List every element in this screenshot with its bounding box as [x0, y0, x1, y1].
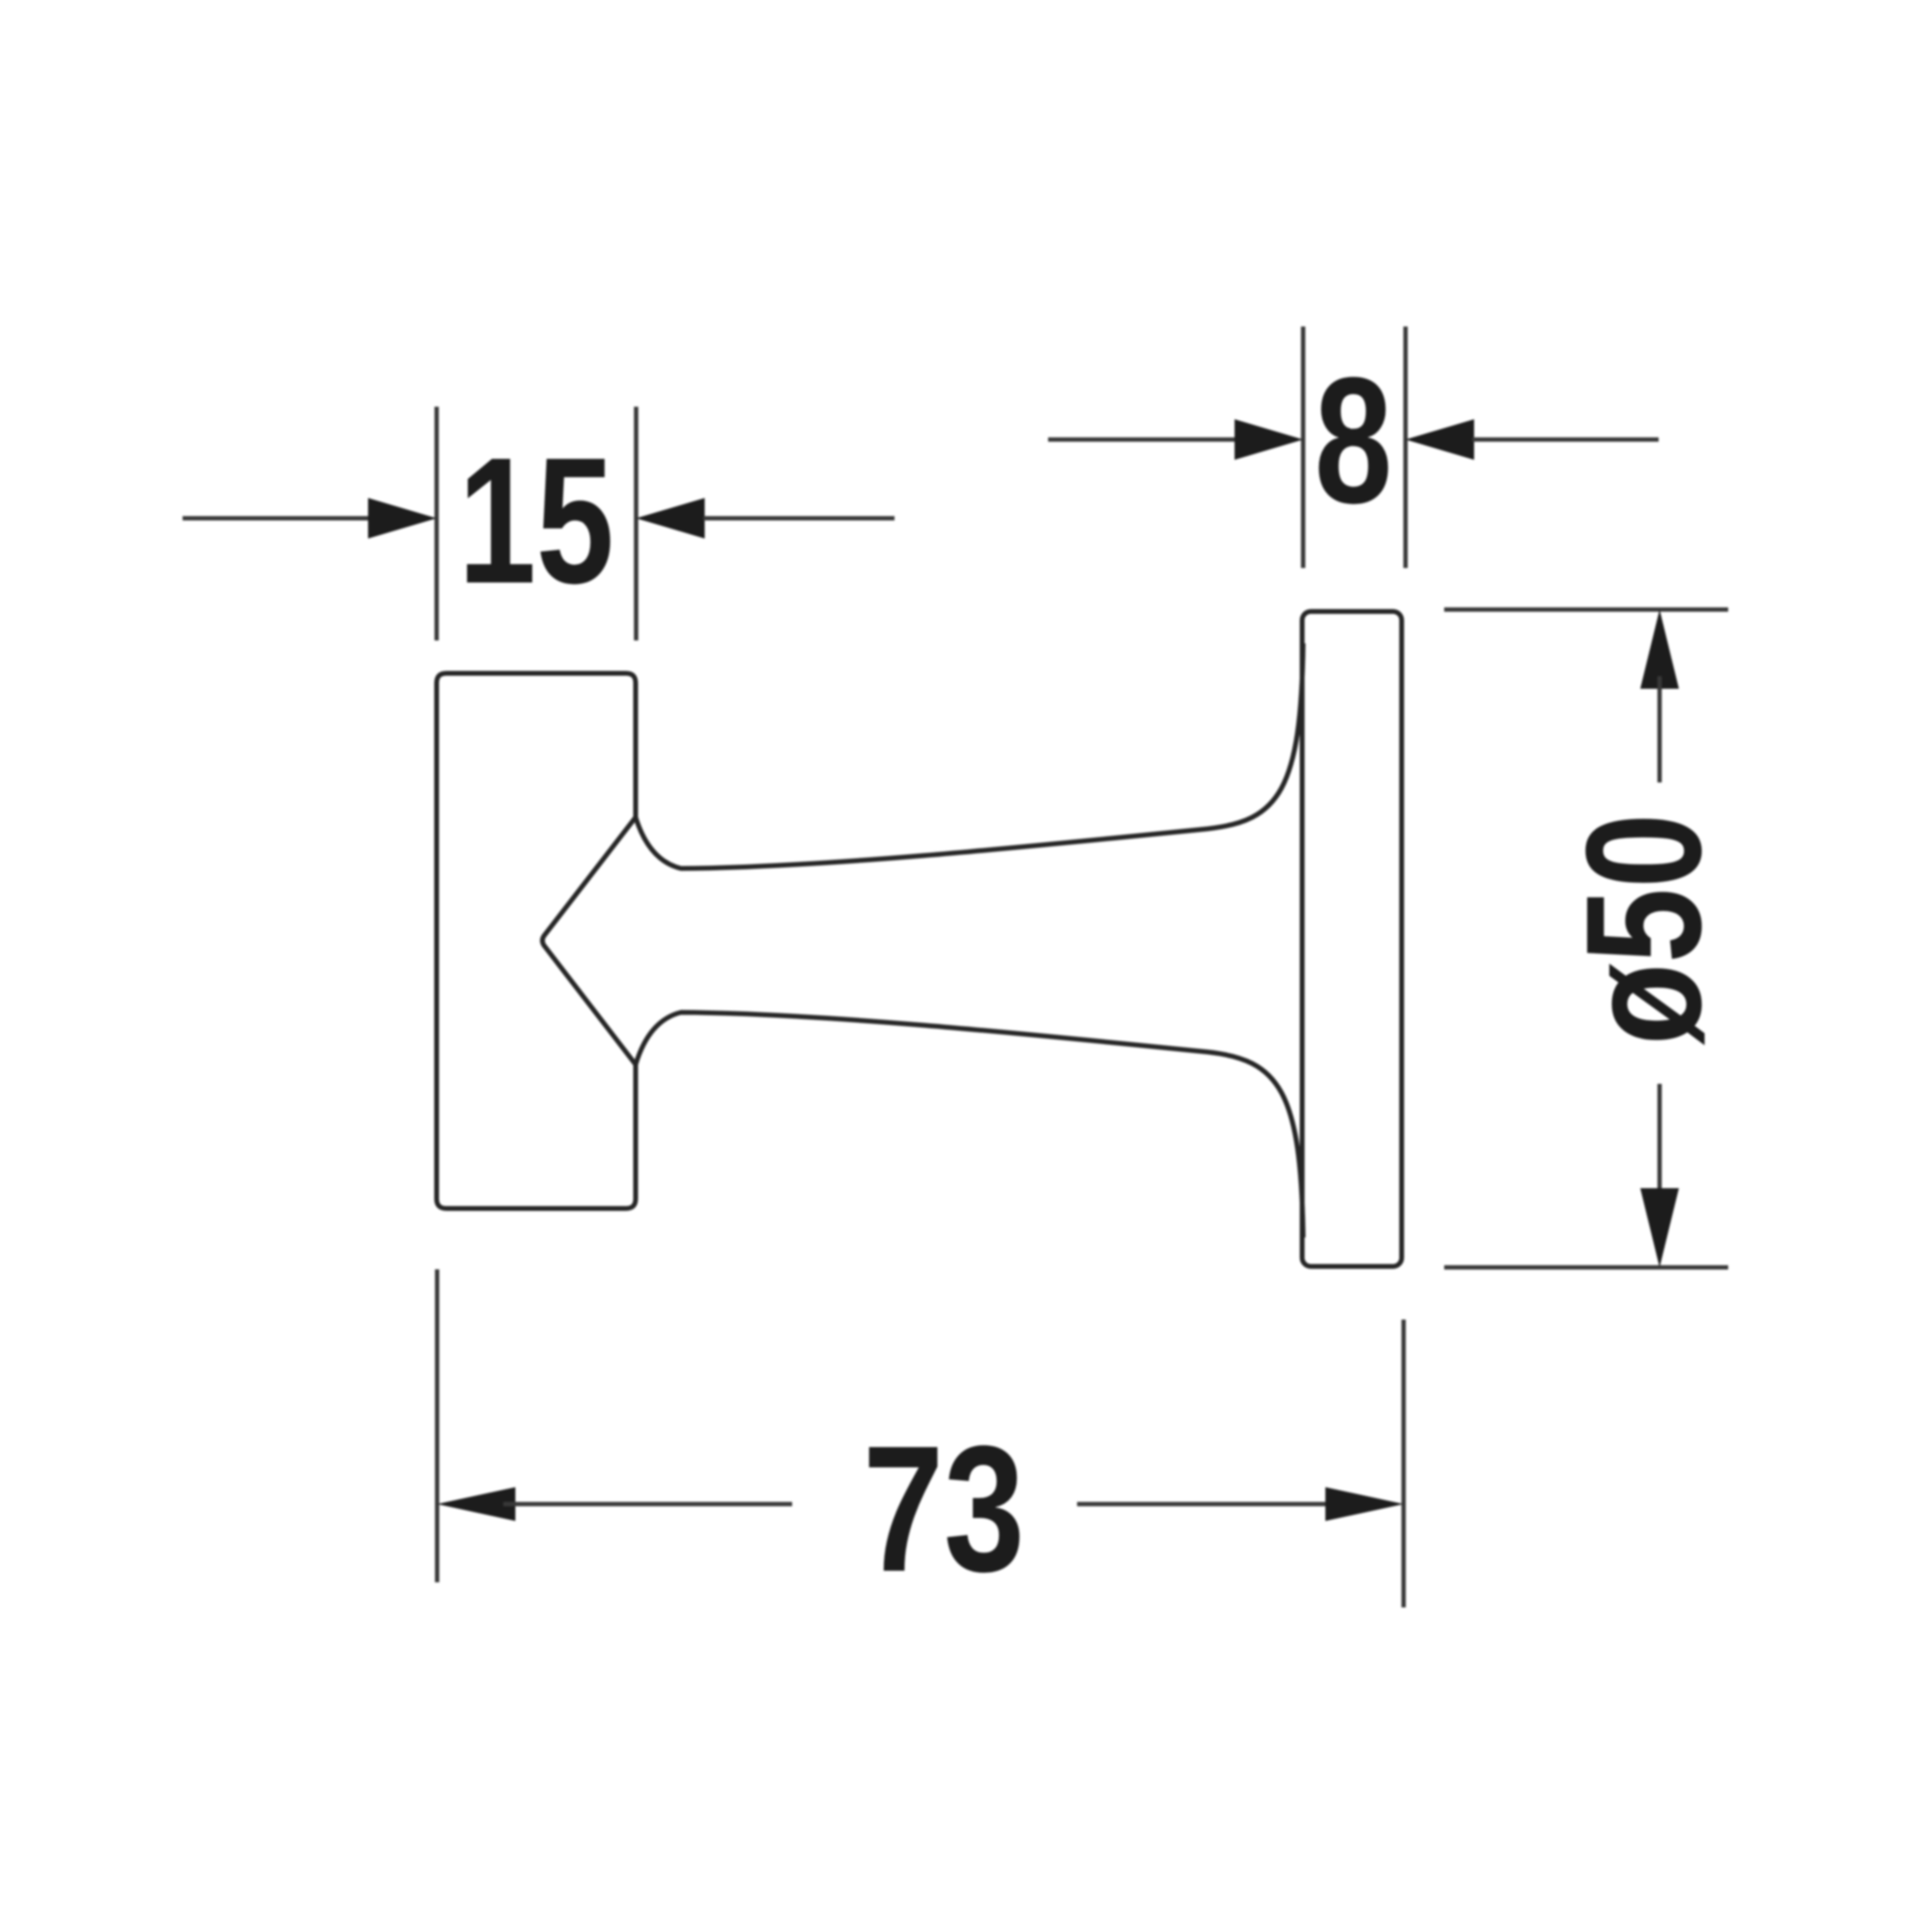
dim 73: right arrowhead [1325, 1488, 1404, 1521]
dim 8: right shaft [1472, 438, 1659, 442]
dim 8: left arrowhead [1235, 419, 1303, 460]
dim dia50: bottom extension line [1444, 1265, 1728, 1270]
dim 15: right shaft [703, 516, 895, 521]
stem bottom edge with neck fillet and trumpet flare [636, 1012, 1303, 1237]
svg-text:8: 8 [1315, 341, 1393, 541]
dim 15: right extension line [634, 407, 639, 640]
knob rectangle (hook front plate, 15 wide) [437, 673, 636, 1208]
dim 73: left shaft [503, 1502, 792, 1507]
svg-text:15: 15 [458, 421, 613, 621]
dim dia50: bottom arrowhead [1640, 1188, 1679, 1267]
dim 8: right arrowhead [1406, 419, 1474, 460]
dim 73: right shaft [1077, 1502, 1337, 1507]
dim dia50: top shaft [1658, 676, 1662, 782]
chevron cone silhouette [543, 817, 637, 1065]
dim dia50: bottom shaft [1658, 1084, 1662, 1201]
dim 15: left arrowhead [368, 498, 437, 539]
dim 8: left shaft [1048, 438, 1236, 442]
svg-text:ø50: ø50 [1551, 813, 1735, 1045]
wall plate rectangle (8 thick, dia 50) [1302, 611, 1402, 1266]
stem top edge with neck fillet and trumpet flare [636, 643, 1303, 868]
dim dia50: top extension line [1444, 608, 1728, 612]
dim 73: left arrowhead [438, 1488, 516, 1521]
dim 15: left shaft [183, 516, 370, 521]
dim 8: left extension line [1301, 327, 1306, 568]
dim 73: right extension line [1402, 1320, 1406, 1607]
dim 15: left extension line [435, 407, 440, 640]
dim 15: right arrowhead [637, 498, 705, 539]
dim dia50: top arrowhead [1640, 610, 1679, 689]
dim 73: left extension line [435, 1269, 440, 1582]
dim 8: right extension line [1404, 327, 1408, 568]
svg-text:73: 73 [863, 1408, 1025, 1609]
